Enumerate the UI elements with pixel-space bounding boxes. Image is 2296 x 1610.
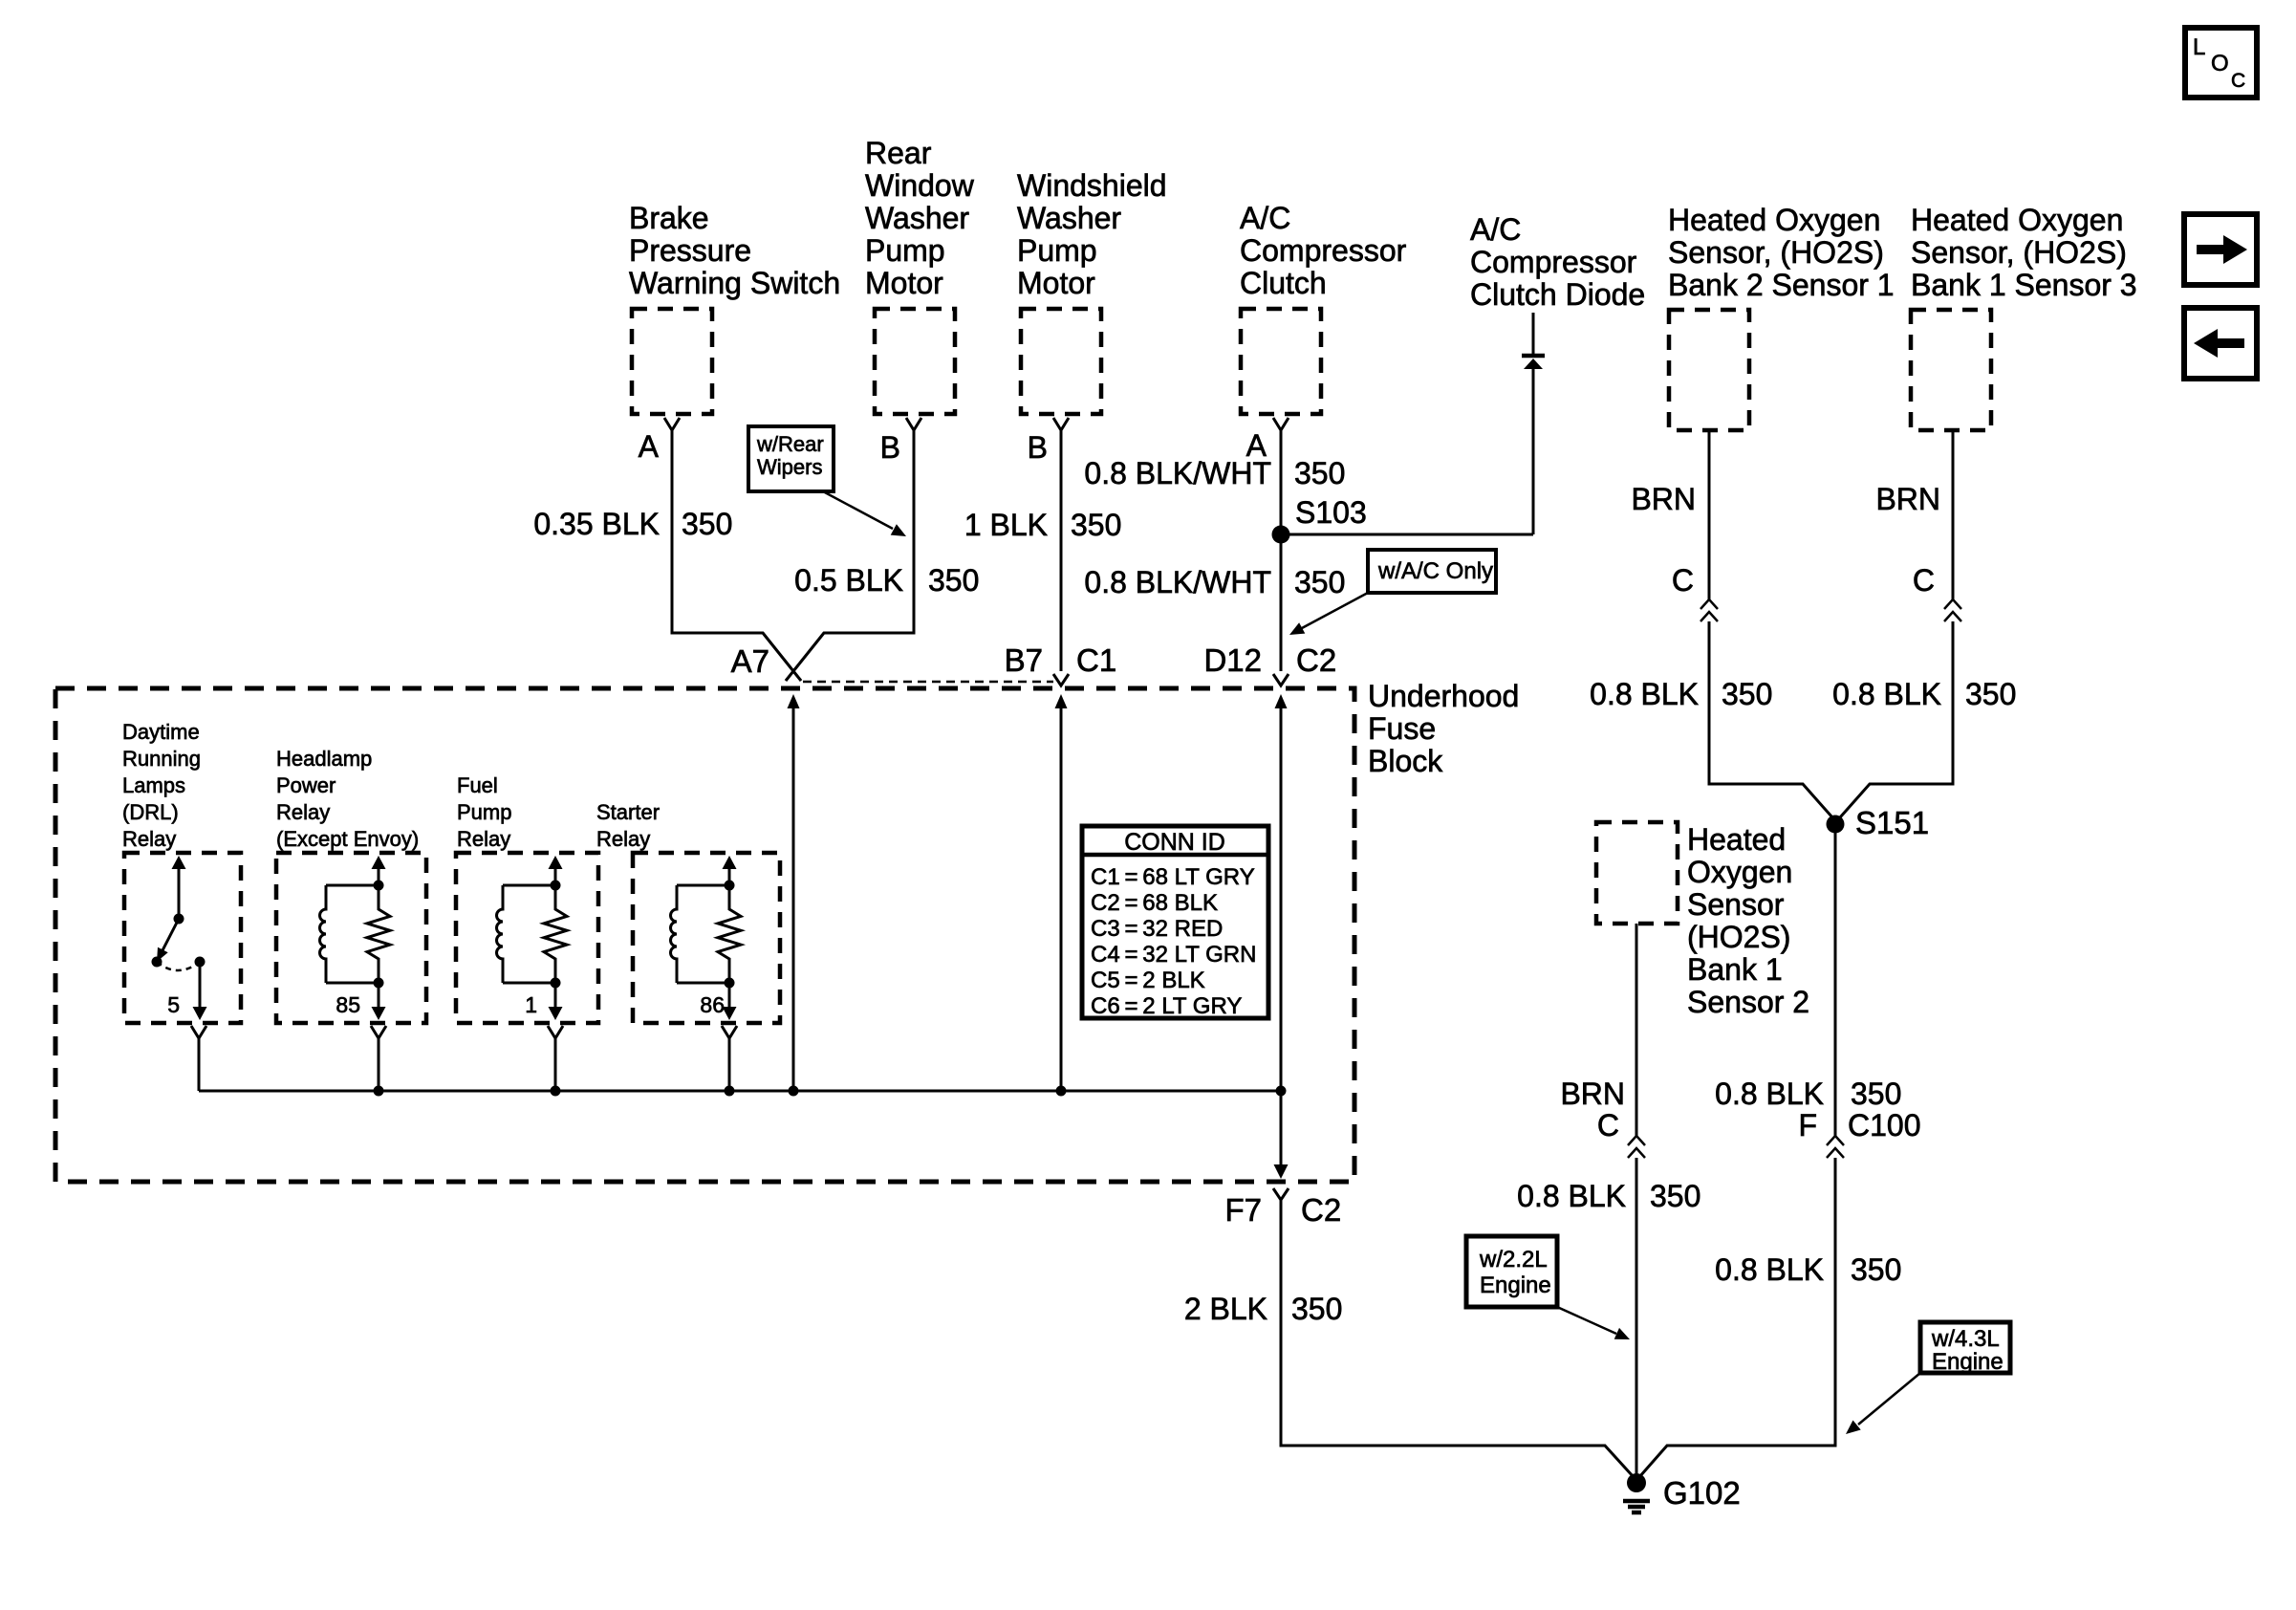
wire starter relay pin 86 to ground bus bbox=[728, 1038, 731, 1091]
svg-text:350: 350 bbox=[1071, 508, 1121, 542]
wire S103 to A/C clutch diode bbox=[1281, 533, 1533, 536]
svg-text:Fuel: Fuel bbox=[457, 773, 498, 797]
svg-text:B7: B7 bbox=[1005, 642, 1043, 678]
pin A connector at A/C compressor clutch bbox=[1273, 418, 1289, 430]
fuel pump relay suppression resistor R bbox=[544, 885, 567, 983]
svg-text:C4 = 32 LT GRN: C4 = 32 LT GRN bbox=[1091, 942, 1256, 968]
DRL relay switch blade (movable contact) bbox=[161, 919, 179, 954]
wire from A/C clutch diode down to S103 branch bbox=[1532, 313, 1535, 534]
pin 86 connector below starter relay bbox=[722, 1026, 737, 1038]
starter relay coil L (winding) bbox=[677, 884, 729, 887]
svg-text:Window: Window bbox=[865, 168, 975, 203]
wire BRN (HO2S B1S2 down to connector C) bbox=[1635, 924, 1638, 1136]
svg-text:Pump: Pump bbox=[865, 233, 945, 268]
wire 0.8 BLK 350 (C100 to G102) bbox=[1639, 1158, 1835, 1477]
wire BRN (HO2S B1S3 down to connector C) bbox=[1952, 430, 1955, 599]
headlamp power relay (dashed box) bbox=[276, 853, 426, 1023]
svg-text:C: C bbox=[1913, 563, 1935, 598]
wire 0.8 BLK 350 (C to S151, right leg) bbox=[1840, 621, 1953, 817]
svg-text:(DRL): (DRL) bbox=[122, 800, 179, 824]
svg-text:w/4.3L: w/4.3L bbox=[1931, 1326, 2000, 1352]
svg-text:Heated Oxygen: Heated Oxygen bbox=[1911, 203, 2123, 237]
svg-text:0.35 BLK: 0.35 BLK bbox=[533, 507, 660, 541]
brake pressure warning switch SW1 (dashed connector box) bbox=[632, 309, 712, 414]
svg-text:Relay: Relay bbox=[276, 800, 330, 824]
svg-text:0.5 BLK: 0.5 BLK bbox=[794, 563, 903, 598]
svg-text:BRN: BRN bbox=[1631, 482, 1696, 516]
svg-text:Bank 1 Sensor 3: Bank 1 Sensor 3 bbox=[1911, 268, 2137, 302]
svg-text:Wipers: Wipers bbox=[757, 455, 822, 479]
DRL relay pin 5 lead (arrow down) bbox=[199, 962, 202, 1008]
pin B connector at rear window washer pump motor bbox=[906, 418, 921, 430]
ground bus junction at C2/F7 branch bbox=[1276, 1086, 1287, 1097]
svg-text:(HO2S): (HO2S) bbox=[1687, 920, 1790, 954]
svg-text:Block: Block bbox=[1368, 744, 1443, 778]
starter relay coil input pin (arrow up) bbox=[723, 856, 737, 869]
svg-text:Relay: Relay bbox=[596, 827, 650, 851]
svg-text:Heated: Heated bbox=[1687, 822, 1786, 857]
svg-text:Bank 2 Sensor 1: Bank 2 Sensor 1 bbox=[1668, 268, 1895, 302]
svg-text:Power: Power bbox=[276, 773, 336, 797]
callout box: w/A/C Only bbox=[1368, 550, 1496, 593]
svg-text:0.8 BLK/WHT: 0.8 BLK/WHT bbox=[1084, 456, 1271, 490]
svg-text:0.8 BLK: 0.8 BLK bbox=[1715, 1252, 1824, 1287]
heated oxygen sensor HO2S bank 1 sensor 2 (dashed connector box) bbox=[1596, 822, 1678, 924]
svg-text:350: 350 bbox=[1851, 1252, 1901, 1287]
callout arrow (w/4.3L Engine to BLK wire) bbox=[1858, 1373, 1920, 1425]
svg-text:C2 = 68 BLK: C2 = 68 BLK bbox=[1091, 890, 1218, 916]
svg-text:F7: F7 bbox=[1224, 1192, 1262, 1228]
callout box: w/4.3L Engine bbox=[1920, 1322, 2010, 1373]
windshield washer pump motor M (dashed connector box) bbox=[1021, 309, 1101, 414]
svg-text:350: 350 bbox=[1722, 677, 1772, 711]
DRL relay switch pivot node bbox=[152, 957, 162, 968]
svg-text:F: F bbox=[1798, 1108, 1817, 1142]
ground bus junction at headlamp relay bbox=[374, 1086, 384, 1097]
svg-text:S103: S103 bbox=[1295, 495, 1367, 530]
svg-text:C3 = 32 RED: C3 = 32 RED bbox=[1091, 916, 1223, 942]
svg-text:BRN: BRN bbox=[1560, 1077, 1625, 1111]
svg-text:Washer: Washer bbox=[1017, 201, 1121, 235]
svg-text:C1 = 68 LT GRY: C1 = 68 LT GRY bbox=[1091, 864, 1255, 890]
heated oxygen sensor HO2S bank 2 sensor 1 (dashed connector box) bbox=[1669, 310, 1749, 430]
svg-text:Rear: Rear bbox=[865, 136, 932, 170]
headlamp relay suppression resistor R bbox=[367, 885, 390, 983]
starter relay suppression resistor R bbox=[718, 885, 741, 983]
fuse block entry arrow at C1 bbox=[1055, 694, 1068, 708]
headlamp relay coil/resistor bottom junction bbox=[374, 978, 384, 989]
svg-text:Motor: Motor bbox=[865, 266, 943, 300]
svg-text:350: 350 bbox=[1851, 1077, 1901, 1111]
DRL relay switch contact node (upper) bbox=[174, 914, 184, 925]
svg-text:0.8 BLK: 0.8 BLK bbox=[1517, 1179, 1626, 1213]
wire 0.35 BLK 350 (brake switch to A7) bbox=[672, 430, 801, 681]
svg-text:C6 = 2 LT GRY: C6 = 2 LT GRY bbox=[1091, 993, 1242, 1019]
pin A7 crossover (wires cross into fuse block pin A7) bbox=[763, 633, 824, 681]
heated oxygen sensor HO2S bank 1 sensor 3 (dashed connector box) bbox=[1911, 310, 1991, 430]
rear window washer pump motor M (dashed connector box) bbox=[875, 309, 955, 414]
svg-text:350: 350 bbox=[1650, 1179, 1700, 1213]
left-arrow legend icon bbox=[2184, 308, 2257, 379]
inline connector C break (bank 1 sensor 2) bbox=[1628, 1136, 1645, 1145]
svg-text:w/A/C Only: w/A/C Only bbox=[1377, 558, 1493, 584]
callout box: w/Rear Wipers bbox=[748, 426, 834, 491]
pin F7/C2 connector below fuse block bbox=[1273, 1188, 1289, 1200]
svg-text:C: C bbox=[1672, 563, 1694, 598]
wire 0.8 BLK 350 (C to S151) bbox=[1709, 621, 1832, 817]
callout arrow (w/2.2L Engine to BLK wire) bbox=[1557, 1307, 1616, 1334]
svg-text:350: 350 bbox=[1291, 1292, 1342, 1326]
svg-text:w/2.2L: w/2.2L bbox=[1479, 1247, 1548, 1273]
wire 0.8 BLK/WHT 350 (S103 to D12/C2 pin) bbox=[1280, 534, 1283, 671]
ground bus junction at starter relay bbox=[725, 1086, 735, 1097]
svg-text:0.8 BLK/WHT: 0.8 BLK/WHT bbox=[1084, 565, 1271, 599]
right-arrow legend icon bbox=[2184, 214, 2257, 285]
svg-text:S151: S151 bbox=[1855, 805, 1929, 840]
wire 1 BLK 350 (windshield washer motor to C1 pin) bbox=[1060, 430, 1063, 671]
fuel pump relay coil/resistor bottom junction bbox=[551, 978, 561, 989]
inline connector C break (bank 1 sensor 3) bbox=[1944, 599, 1961, 609]
svg-text:350: 350 bbox=[1965, 677, 2016, 711]
ground bus junction at A7 branch bbox=[789, 1086, 799, 1097]
wire fuel pump relay pin 1 to ground bus bbox=[554, 1038, 557, 1091]
wire S151 down to connector C100 bbox=[1834, 824, 1837, 1136]
svg-text:0.8 BLK: 0.8 BLK bbox=[1590, 677, 1699, 711]
fuse block exit arrow at F7 bbox=[1280, 1091, 1283, 1168]
fuel pump relay coil/resistor top junction bbox=[551, 881, 561, 891]
fuel pump relay (dashed box) bbox=[456, 853, 598, 1023]
callout arrow (w/Rear Wipers to 0.5 BLK wire) bbox=[823, 491, 893, 529]
svg-text:C: C bbox=[1597, 1108, 1619, 1142]
svg-text:Relay: Relay bbox=[122, 827, 176, 851]
inline connector C break (bank 2 sensor 1) bbox=[1700, 599, 1718, 609]
diode D (A/C compressor clutch diode, cathode bar up) bbox=[1522, 354, 1545, 359]
splice node S151 bbox=[1827, 816, 1845, 834]
wire headlamp relay pin 85 to ground bus bbox=[378, 1038, 380, 1091]
wire 0.8 BLK 350 (bank 1 sensor 2 to G102) bbox=[1635, 1158, 1638, 1477]
svg-text:1 BLK: 1 BLK bbox=[964, 508, 1048, 542]
ground symbol G102 bbox=[1623, 1499, 1650, 1504]
svg-text:B: B bbox=[880, 430, 900, 465]
DRL relay switch common pin (arrow up) bbox=[172, 856, 186, 869]
svg-text:Pump: Pump bbox=[457, 800, 511, 824]
pin 5 connector below DRL relay bbox=[191, 1026, 206, 1038]
svg-text:Pressure: Pressure bbox=[629, 233, 751, 268]
DRL relay switch throw arc (dashed) bbox=[157, 962, 200, 970]
callout box: w/2.2L Engine bbox=[1466, 1236, 1557, 1307]
svg-text:350: 350 bbox=[928, 563, 979, 598]
svg-text:1: 1 bbox=[525, 992, 537, 1017]
svg-text:Windshield: Windshield bbox=[1017, 168, 1167, 203]
pin B7/C1 connector at fuse block bbox=[1053, 674, 1069, 685]
svg-text:Engine: Engine bbox=[1932, 1349, 2004, 1375]
svg-text:C1: C1 bbox=[1076, 642, 1116, 678]
wire BRN (HO2S B2S1 down to connector C) bbox=[1708, 430, 1711, 599]
callout arrow (w/A/C Only to BLK/WHT wire) bbox=[1302, 593, 1368, 628]
svg-text:Sensor: Sensor bbox=[1687, 887, 1785, 922]
svg-text:D12: D12 bbox=[1203, 642, 1262, 678]
svg-text:A/C: A/C bbox=[1240, 201, 1290, 235]
fuel pump relay coil L (winding) bbox=[503, 884, 555, 887]
svg-text:Oxygen: Oxygen bbox=[1687, 855, 1792, 889]
fuel pump relay pin 1 lead (arrow down) bbox=[554, 983, 557, 1008]
svg-text:Relay: Relay bbox=[457, 827, 510, 851]
headlamp relay coil/resistor top junction bbox=[374, 881, 384, 891]
svg-text:Motor: Motor bbox=[1017, 266, 1095, 300]
headlamp relay pin 85 lead (arrow down) bbox=[378, 983, 380, 1008]
svg-text:CONN ID: CONN ID bbox=[1124, 829, 1225, 856]
svg-text:Sensor 2: Sensor 2 bbox=[1687, 985, 1809, 1019]
inline connector C100 break bbox=[1827, 1136, 1844, 1145]
svg-text:350: 350 bbox=[1294, 456, 1345, 490]
svg-text:Starter: Starter bbox=[596, 800, 660, 824]
wire 0.8 BLK/WHT 350 (A/C clutch to S103) bbox=[1280, 430, 1283, 534]
fuse block entry arrow at C2 bbox=[1275, 694, 1288, 708]
svg-text:Lamps: Lamps bbox=[122, 773, 185, 797]
svg-text:A: A bbox=[639, 429, 660, 464]
svg-text:A/C: A/C bbox=[1470, 212, 1521, 247]
pin D12/C2 connector at fuse block bbox=[1273, 674, 1289, 685]
svg-text:Compressor: Compressor bbox=[1470, 245, 1637, 279]
svg-text:Daytime: Daytime bbox=[122, 720, 200, 744]
ground node G102 (dot) bbox=[1627, 1473, 1646, 1492]
svg-text:Sensor, (HO2S): Sensor, (HO2S) bbox=[1911, 235, 2127, 270]
svg-text:2 BLK: 2 BLK bbox=[1184, 1292, 1267, 1326]
pin A connector at brake switch bbox=[664, 418, 680, 430]
ground bus junction at C1 branch bbox=[1056, 1086, 1067, 1097]
CONN ID table box bbox=[1082, 826, 1268, 1018]
svg-text:0.8 BLK: 0.8 BLK bbox=[1715, 1077, 1824, 1111]
svg-text:Fuse: Fuse bbox=[1368, 711, 1436, 746]
svg-text:C2: C2 bbox=[1296, 642, 1336, 678]
svg-text:G102: G102 bbox=[1663, 1475, 1741, 1511]
ground bus wire inside fuse block bbox=[199, 1090, 1281, 1093]
svg-text:Sensor, (HO2S): Sensor, (HO2S) bbox=[1668, 235, 1884, 270]
svg-text:BRN: BRN bbox=[1875, 482, 1940, 516]
svg-text:Warning Switch: Warning Switch bbox=[629, 266, 840, 300]
starter relay (dashed box) bbox=[633, 853, 780, 1023]
svg-text:Brake: Brake bbox=[629, 201, 709, 235]
svg-text:85: 85 bbox=[336, 992, 360, 1017]
wire 0.5 BLK 350 (rear washer motor to A7) bbox=[786, 430, 914, 681]
svg-text:Underhood: Underhood bbox=[1368, 679, 1519, 713]
svg-text:Washer: Washer bbox=[865, 201, 969, 235]
svg-text:Clutch Diode: Clutch Diode bbox=[1470, 277, 1645, 312]
starter relay coil/resistor top junction bbox=[725, 881, 735, 891]
wire 2 BLK 350 (F7 to G102) bbox=[1281, 1200, 1634, 1477]
underhood fuse block (dashed outline) bbox=[55, 688, 1354, 1182]
svg-text:C100: C100 bbox=[1848, 1108, 1921, 1142]
svg-text:Bank 1: Bank 1 bbox=[1687, 952, 1783, 987]
svg-text:Heated Oxygen: Heated Oxygen bbox=[1668, 203, 1880, 237]
pin B connector at windshield washer pump motor bbox=[1053, 418, 1069, 430]
wire DRL relay pin 5 to ground bus bbox=[198, 1038, 201, 1091]
svg-text:L: L bbox=[2193, 34, 2205, 60]
svg-text:B: B bbox=[1028, 430, 1048, 465]
optional dashed wire (A7 to B7, w/Rear Wipers) bbox=[803, 681, 1053, 684]
svg-text:C2: C2 bbox=[1301, 1192, 1341, 1228]
DRL relay (dashed box) bbox=[124, 853, 241, 1023]
headlamp relay coil input pin (arrow up) bbox=[372, 856, 386, 869]
A/C compressor clutch (dashed connector box) bbox=[1241, 309, 1321, 414]
svg-text:5: 5 bbox=[167, 992, 180, 1017]
svg-text:350: 350 bbox=[682, 507, 732, 541]
fuse block entry arrow at A7 bbox=[788, 694, 800, 708]
svg-text:Pump: Pump bbox=[1017, 233, 1097, 268]
svg-text:Clutch: Clutch bbox=[1240, 266, 1327, 300]
svg-text:Engine: Engine bbox=[1480, 1273, 1551, 1298]
svg-text:86: 86 bbox=[700, 992, 725, 1017]
svg-text:Headlamp: Headlamp bbox=[276, 747, 372, 771]
svg-text:w/Rear: w/Rear bbox=[756, 432, 824, 456]
fuel pump relay coil input pin (arrow up) bbox=[549, 856, 563, 869]
svg-text:Running: Running bbox=[122, 747, 201, 771]
splice node S103 bbox=[1272, 526, 1290, 544]
pin 85 connector below headlamp relay bbox=[371, 1026, 386, 1038]
starter relay pin 86 lead (arrow down) bbox=[728, 983, 731, 1008]
DRL relay switch output node bbox=[195, 957, 206, 968]
svg-text:0.8 BLK: 0.8 BLK bbox=[1832, 677, 1941, 711]
ground bus junction at fuel pump relay bbox=[551, 1086, 561, 1097]
svg-text:C5 = 2 BLK: C5 = 2 BLK bbox=[1091, 968, 1205, 993]
LOC legend icon box (top right) bbox=[2185, 28, 2257, 98]
headlamp relay coil L (winding) bbox=[326, 884, 379, 887]
svg-text:C: C bbox=[2231, 70, 2245, 92]
svg-text:Compressor: Compressor bbox=[1240, 233, 1407, 268]
svg-text:350: 350 bbox=[1294, 565, 1345, 599]
svg-text:A7: A7 bbox=[731, 643, 769, 679]
svg-text:(Except Envoy): (Except Envoy) bbox=[276, 827, 419, 851]
svg-text:O: O bbox=[2211, 51, 2229, 76]
starter relay coil/resistor bottom junction bbox=[725, 978, 735, 989]
pin 1 connector below fuel pump relay bbox=[548, 1026, 563, 1038]
